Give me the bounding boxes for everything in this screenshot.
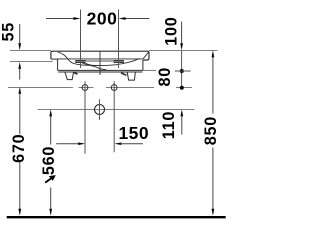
200 dim arrows (46, 17, 149, 20)
body bottom lines (58, 69, 143, 71)
deck line full width (58, 58, 143, 60)
lower reference line left (10, 61, 53, 63)
drain centre line (38, 109, 195, 111)
foot wedge left (74, 73, 78, 75)
body faces (57, 59, 59, 70)
svg-text:560: 560 (40, 146, 58, 175)
100 dim (180, 22, 183, 88)
svg-text:100: 100 (163, 16, 181, 45)
left foot (65, 72, 74, 80)
55 dim (18, 24, 21, 80)
svg-text:200: 200 (87, 8, 118, 28)
560 diagonal arrow (45, 175, 56, 183)
rim slab (51, 51, 149, 60)
svg-text:110: 110 (160, 111, 178, 139)
faucet hole cluster left (75, 61, 85, 63)
right foot (127, 72, 135, 80)
560 dim (49, 109, 52, 215)
670 dim (18, 87, 21, 216)
faucet hole cluster right (114, 61, 124, 63)
right inner diagonal (143, 52, 148, 59)
drain circle (95, 105, 105, 115)
drain centreline inside basin (99, 51, 101, 75)
svg-text:670: 670 (10, 134, 28, 163)
svg-text:80: 80 (156, 67, 174, 87)
svg-text:850: 850 (202, 116, 220, 145)
200 dim extension lines (80, 10, 82, 69)
basin outline (51, 51, 156, 80)
deck bar line between holes (75, 60, 124, 62)
supply extension lines (84, 81, 86, 154)
supply centre line (8, 87, 192, 89)
110 dim (180, 109, 183, 134)
foot wedge right (121, 73, 127, 75)
rim reference line left (10, 50, 51, 52)
svg-text:150: 150 (118, 123, 149, 143)
bowl curve (58, 52, 140, 65)
150 dim (56, 142, 143, 145)
rim reference line right (149, 50, 217, 52)
small diagonal near left hole (82, 63, 94, 67)
centre drain detail (86, 64, 107, 70)
floor line (7, 216, 226, 218)
80 dots (180, 69, 184, 73)
850 dim (212, 50, 215, 215)
underside line right (143, 69, 156, 71)
svg-text:55: 55 (0, 22, 18, 42)
supply circles (82, 85, 88, 91)
